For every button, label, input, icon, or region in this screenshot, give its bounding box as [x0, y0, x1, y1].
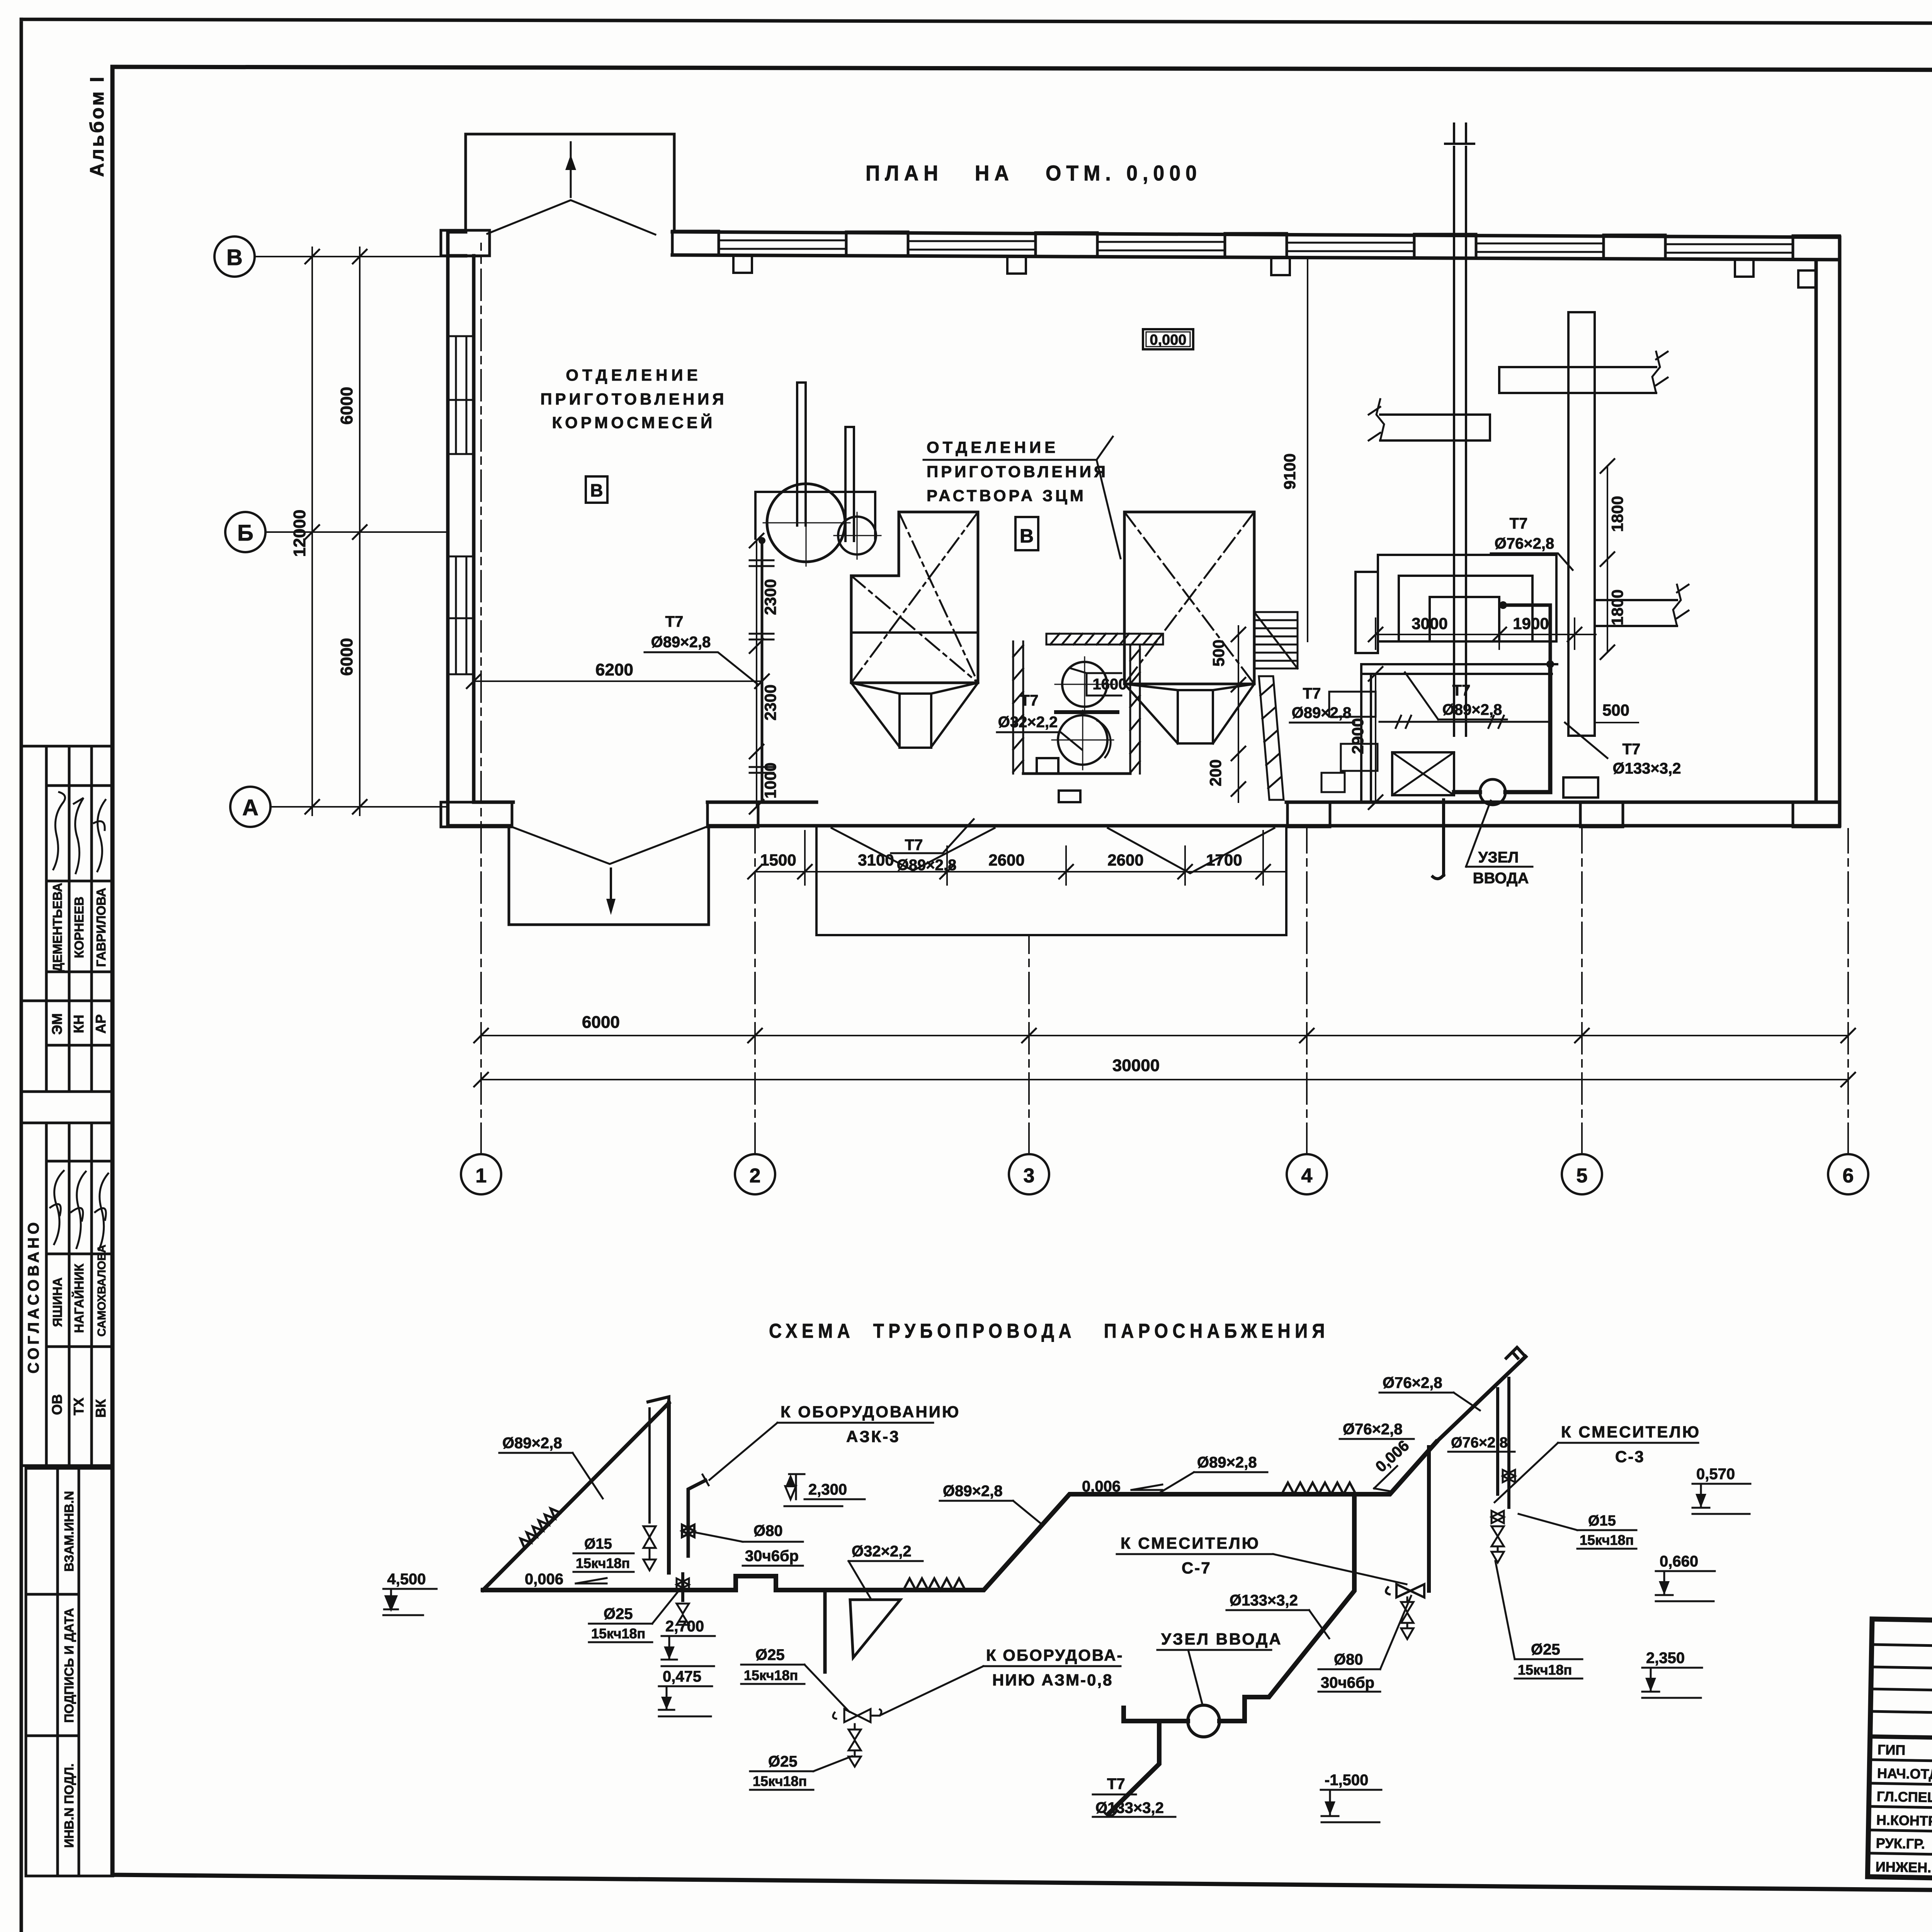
pump circle — [1188, 1705, 1219, 1737]
partition wall right zone horizontal — [1361, 664, 1557, 674]
svg-text:САМОХВАЛОВА: САМОХВАЛОВА — [95, 1245, 108, 1337]
svg-text:Т7: Т7 — [1510, 515, 1528, 532]
label АЗК-3 — [781, 1403, 960, 1446]
stamp grid lines — [1871, 1645, 1932, 1716]
svg-text:Ø15: Ø15 — [584, 1536, 612, 1552]
svg-text:2300: 2300 — [761, 579, 779, 615]
svg-text:УЗЕЛ ВВОДА: УЗЕЛ ВВОДА — [1161, 1630, 1282, 1648]
T7 d89 pipe run — [1379, 721, 1548, 723]
svg-text:ЯШИНА: ЯШИНА — [50, 1277, 65, 1327]
arm 3 break — [1673, 585, 1689, 626]
riser tick marks — [750, 560, 774, 773]
left dim ticks — [305, 250, 367, 814]
svg-text:12000: 12000 — [290, 510, 309, 557]
X-box near entry unit — [1392, 752, 1454, 795]
valve d80 right with tilde — [1386, 1584, 1424, 1597]
signature Дементьева — [53, 792, 65, 869]
roller swirl — [1097, 721, 1111, 757]
svg-text:ЭМ: ЭМ — [49, 1013, 65, 1035]
label d15 left — [576, 1536, 630, 1571]
svg-text:30000: 30000 — [1112, 1056, 1160, 1075]
pipe segment with node upper — [1503, 605, 1550, 664]
label T7 d89 right room — [1442, 682, 1502, 718]
svg-text:2,300: 2,300 — [808, 1481, 847, 1498]
svg-text:0,000: 0,000 — [1150, 332, 1186, 348]
dim 9100 — [1307, 260, 1308, 641]
label узел ввода with leader — [1473, 849, 1529, 887]
svg-text:Б: Б — [237, 520, 253, 546]
svg-text:Н.КОНТР.: Н.КОНТР. — [1876, 1812, 1932, 1829]
svg-text:Ø25: Ø25 — [604, 1605, 633, 1622]
svg-text:АР: АР — [93, 1014, 109, 1034]
svg-text:РАСТВОРА ЗЦМ: РАСТВОРА ЗЦМ — [927, 486, 1086, 505]
LEFTCOL — [21, 746, 113, 1876]
svg-text:3: 3 — [1024, 1165, 1035, 1187]
dim chain 1500 3100 2600 2600 1700 — [755, 871, 1286, 872]
left riser pipe T7 — [761, 541, 764, 802]
signature Корнеев — [74, 798, 83, 873]
svg-text:ПЛАН НА ОТМ. 0,000: ПЛАН НА ОТМ. 0,000 — [866, 161, 1202, 185]
svg-text:15кч18п: 15кч18п — [753, 1773, 807, 1789]
svg-text:-1,500: -1,500 — [1325, 1772, 1368, 1789]
svg-text:Ø76×2,8: Ø76×2,8 — [1383, 1374, 1442, 1391]
bottom wall piers — [441, 802, 1840, 827]
svg-text:К ОБОРУДОВА-: К ОБОРУДОВА- — [986, 1646, 1123, 1664]
elevation box 0,000 — [1143, 329, 1193, 349]
svg-text:2300: 2300 — [761, 684, 779, 720]
branch АЗК-3 upper pipe — [688, 1480, 706, 1556]
svg-text:6200: 6200 — [595, 660, 633, 679]
svg-text:15кч18п: 15кч18п — [744, 1667, 798, 1683]
branch lower drop — [681, 1574, 684, 1600]
svg-text:2: 2 — [750, 1165, 761, 1187]
svg-text:15кч18п: 15кч18п — [1518, 1662, 1572, 1678]
svg-text:1900: 1900 — [1513, 614, 1549, 633]
svg-text:2600: 2600 — [1107, 851, 1143, 869]
drop pipe d80 right — [1427, 1447, 1431, 1591]
approvals table 1 grid — [21, 746, 113, 1092]
hopper 2 box — [1124, 512, 1254, 684]
top wall piers — [441, 230, 1840, 260]
signature Нагайник — [71, 1172, 86, 1248]
svg-text:0,475: 0,475 — [663, 1668, 701, 1685]
svg-text:Т7: Т7 — [1107, 1776, 1125, 1793]
svg-text:15кч18п: 15кч18п — [591, 1626, 645, 1641]
bottom porch arrow — [610, 869, 612, 900]
label d15 right — [1580, 1513, 1634, 1548]
svg-text:4: 4 — [1301, 1165, 1313, 1187]
steam pipe from pump — [1454, 664, 1550, 792]
svg-text:30ч6бр: 30ч6бр — [745, 1548, 799, 1565]
left dim line 6000s — [359, 247, 361, 815]
svg-text:Ø133×3,2: Ø133×3,2 — [1613, 760, 1681, 777]
ЗЦМ room hatched wall left — [1013, 641, 1023, 774]
svg-text:КОРНЕЕВ: КОРНЕЕВ — [72, 896, 86, 958]
porch exit arrow — [570, 142, 572, 197]
svg-text:КОРМОСМЕСЕЙ: КОРМОСМЕСЕЙ — [552, 413, 716, 432]
svg-text:0,570: 0,570 — [1696, 1466, 1735, 1483]
svg-text:ВЗАМ.ИНВ.N: ВЗАМ.ИНВ.N — [62, 1491, 76, 1572]
svg-text:А: А — [242, 795, 259, 820]
svg-text:Т7: Т7 — [905, 837, 923, 854]
conveyor cross arm 2 — [1380, 415, 1490, 440]
apex flag — [648, 1397, 669, 1410]
svg-text:РУК.ГР.: РУК.ГР. — [1876, 1835, 1925, 1852]
svg-text:ОТДЕЛЕНИЕ: ОТДЕЛЕНИЕ — [927, 438, 1059, 456]
dim line 30000 — [481, 1079, 1848, 1080]
svg-text:НИЮ АЗМ-0,8: НИЮ АЗМ-0,8 — [992, 1671, 1113, 1689]
svg-text:2600: 2600 — [988, 851, 1024, 869]
svg-text:Ø25: Ø25 — [768, 1753, 798, 1770]
valve d80 on branch — [682, 1525, 694, 1537]
TITLEBLOCK — [1867, 1483, 1932, 1932]
hopper 2 X — [1124, 512, 1254, 684]
svg-text:Ø32×2,2: Ø32×2,2 — [852, 1543, 912, 1560]
signature Гаврилова — [94, 800, 105, 871]
porch roof ridge — [487, 200, 655, 235]
dim 3000 1900 — [1376, 618, 1596, 649]
ЗЦМ label leader — [923, 437, 1121, 558]
svg-text:2900: 2900 — [1349, 718, 1367, 754]
svg-text:Ø15: Ø15 — [1588, 1513, 1616, 1529]
conveyor cross arm 1 — [1499, 367, 1656, 393]
bottom porch roof — [514, 827, 706, 864]
pipe drop below pump — [1433, 800, 1444, 879]
axis В line — [255, 256, 481, 257]
roller circle 2 — [1058, 715, 1107, 765]
tank crosshairs — [763, 479, 881, 566]
left wall window 1 — [450, 336, 472, 454]
branch d32 drop — [823, 1590, 827, 1672]
top wall glazing — [719, 240, 1793, 253]
svg-text:КН: КН — [71, 1015, 87, 1033]
svg-text:ВВОДА: ВВОДА — [1473, 870, 1529, 887]
hopper 1 band line — [851, 631, 978, 634]
svg-text:ПРИГОТОВЛЕНИЯ: ПРИГОТОВЛЕНИЯ — [927, 463, 1108, 481]
svg-text:200: 200 — [1206, 759, 1225, 786]
label d80 30ч6бр — [745, 1522, 799, 1565]
svg-text:1600: 1600 — [1093, 676, 1127, 693]
left wall lines — [448, 232, 474, 826]
dim 1800 1800 vertical — [1607, 466, 1608, 652]
label T7 d76 — [1495, 515, 1554, 552]
svg-text:0,006: 0,006 — [1082, 1478, 1121, 1495]
svg-text:ПРИГОТОВЛЕНИЯ: ПРИГОТОВЛЕНИЯ — [540, 390, 727, 408]
svg-text:6: 6 — [1843, 1165, 1854, 1187]
label d25 right — [1518, 1641, 1572, 1678]
svg-text:К СМЕСИТЕЛЮ: К СМЕСИТЕЛЮ — [1561, 1423, 1701, 1441]
svg-text:ПОДПИСЬ И ДАТА: ПОДПИСЬ И ДАТА — [62, 1608, 76, 1723]
left wall window 2 — [450, 556, 472, 674]
svg-text:Ø76×2,8: Ø76×2,8 — [1343, 1421, 1403, 1438]
svg-text:К ОБОРУДОВАНИЮ: К ОБОРУДОВАНИЮ — [781, 1403, 960, 1421]
label T7 d133 — [1613, 741, 1681, 777]
parallel risers d76 — [1498, 1378, 1509, 1507]
dim chain 2300 2300 1000 — [756, 541, 757, 807]
svg-text:В: В — [226, 245, 243, 270]
svg-text:СХЕМА ТРУБОПРОВОДА ПАРОСНАБ: СХЕМА ТРУБОПРОВОДА ПАРОСНАБЖЕНИЯ — [769, 1320, 1329, 1342]
diagonal d76 rise — [1436, 1357, 1526, 1442]
label С-3 — [1561, 1423, 1701, 1466]
svg-text:1500: 1500 — [760, 851, 796, 869]
svg-text:ТХ: ТХ — [71, 1398, 87, 1415]
main steam line run 1 — [483, 1442, 1436, 1590]
column stubs below top wall — [733, 256, 1753, 277]
pipe left of pump — [1124, 1708, 1188, 1721]
block near pier — [1563, 777, 1598, 798]
zone mark В 1 — [586, 476, 607, 503]
return drop T7 — [1109, 1724, 1159, 1813]
axis А line — [270, 806, 448, 808]
valve АЗМ — [833, 1709, 881, 1722]
svg-text:УЗЕЛ: УЗЕЛ — [1478, 849, 1519, 866]
svg-text:СОГЛАСОВАНО: СОГЛАСОВАНО — [25, 1219, 42, 1373]
axis Б line — [265, 531, 448, 533]
approvals table 2 grid — [21, 1123, 113, 1466]
d76 top flag — [1506, 1347, 1526, 1358]
svg-text:ГАВРИЛОВА: ГАВРИЛОВА — [94, 888, 108, 967]
label d25 no3 — [753, 1753, 807, 1789]
steam trace zigzag 2 — [1282, 1483, 1356, 1494]
svg-text:Ø89×2,8: Ø89×2,8 — [1292, 704, 1352, 721]
arm 1 break — [1652, 352, 1668, 393]
svg-text:Т7: Т7 — [1303, 685, 1321, 702]
SCHEMA — [383, 1320, 1750, 1822]
d32 flag triangle — [850, 1600, 900, 1658]
svg-text:Ø25: Ø25 — [755, 1646, 785, 1663]
bottom axis circles 1-6 — [461, 1154, 1868, 1194]
svg-text:Т7: Т7 — [1020, 692, 1039, 709]
axis А circle — [230, 787, 270, 827]
svg-text:ИНВ.N ПОДЛ.: ИНВ.N ПОДЛ. — [62, 1764, 76, 1848]
furniture rects — [1321, 692, 1378, 792]
dim 6200 — [474, 680, 762, 682]
riser triangle hypotenuse — [483, 1403, 669, 1590]
svg-text:ГЛ.СПЕЦ.: ГЛ.СПЕЦ. — [1877, 1788, 1932, 1805]
svg-text:30ч6бр: 30ч6бр — [1321, 1674, 1374, 1691]
inventory strip table 3 — [26, 1468, 113, 1876]
dim 2900 — [1375, 674, 1376, 802]
chimney 2 — [845, 427, 854, 541]
label d25 no2 — [744, 1646, 798, 1683]
svg-text:АЗК-3: АЗК-3 — [846, 1427, 900, 1446]
signature Яшина — [50, 1171, 64, 1244]
tank circle small — [838, 517, 876, 554]
svg-text:Ø76×2,8: Ø76×2,8 — [1451, 1435, 1508, 1451]
svg-text:Ø80: Ø80 — [1334, 1651, 1363, 1668]
hopper 1 funnel — [851, 683, 978, 747]
svg-text:Ø80: Ø80 — [753, 1522, 783, 1539]
hopper 1 X — [851, 512, 978, 683]
conveyor vertical strip — [1568, 312, 1595, 736]
roller feed pipe — [1056, 710, 1117, 714]
axis В circle — [214, 236, 255, 277]
svg-text:3100: 3100 — [858, 851, 894, 869]
PLAN — [214, 124, 1868, 1194]
floor sill blocks — [1037, 758, 1080, 802]
svg-text:Ø89×2,8: Ø89×2,8 — [1442, 701, 1502, 718]
svg-text:С-7: С-7 — [1182, 1559, 1211, 1577]
svg-text:Т7: Т7 — [1622, 741, 1641, 758]
entry unit pump circle — [1480, 779, 1505, 805]
axis Б circle — [225, 512, 265, 552]
svg-text:ОВ: ОВ — [49, 1394, 65, 1415]
right wall — [1816, 237, 1840, 826]
tank base plate — [755, 492, 875, 539]
loading dock outline — [816, 826, 1286, 935]
hopper 1 outlet — [900, 694, 931, 748]
svg-text:2,700: 2,700 — [665, 1618, 704, 1635]
conveyor arm 3 — [1596, 600, 1677, 626]
main stamp outline — [1867, 1619, 1932, 1891]
dim ticks bottom — [474, 1029, 1855, 1087]
label T7 d89 bottom — [897, 837, 957, 874]
svg-text:4,500: 4,500 — [387, 1571, 426, 1588]
svg-text:В: В — [1020, 525, 1034, 547]
svg-text:500: 500 — [1602, 701, 1629, 719]
valve on riser — [1503, 1470, 1515, 1482]
tank circle big — [767, 484, 845, 562]
svg-text:Ø89×2,8: Ø89×2,8 — [897, 857, 957, 874]
svg-text:В: В — [590, 480, 603, 500]
label Т7 schema — [1095, 1776, 1164, 1816]
bottom porch — [509, 827, 709, 925]
ЗЦМ room hatched wall right — [1130, 645, 1140, 774]
svg-text:15кч18п: 15кч18п — [1580, 1532, 1634, 1548]
hypotenuse trace zigzag — [520, 1509, 561, 1549]
axis stems — [481, 243, 1848, 1154]
dim line 6000 bay — [481, 1035, 1848, 1036]
roller crosshairs — [1052, 657, 1114, 770]
svg-text:Альбом I: Альбом I — [86, 75, 108, 177]
top wall inner line — [448, 255, 1840, 260]
drain below АЗМ valve — [849, 1724, 861, 1767]
svg-text:Ø133×3,2: Ø133×3,2 — [1230, 1592, 1298, 1609]
svg-text:Ø133×3,2: Ø133×3,2 — [1095, 1799, 1164, 1816]
svg-text:3000: 3000 — [1412, 614, 1447, 633]
left dim line 12000 — [311, 247, 313, 815]
svg-text:1700: 1700 — [1206, 851, 1242, 869]
svg-text:НАГАЙНИК: НАГАЙНИК — [71, 1263, 86, 1333]
zone mark В 2 — [1015, 517, 1038, 550]
arm 2 break — [1369, 399, 1384, 440]
signature Самохвалова — [95, 1173, 108, 1250]
chimney 1 — [797, 383, 806, 526]
svg-text:2,350: 2,350 — [1646, 1650, 1685, 1667]
right wall corner stub — [1798, 270, 1816, 287]
mixer room floor line — [1023, 772, 1130, 775]
svg-text:Т7: Т7 — [665, 613, 684, 630]
inner drop thin — [648, 1408, 651, 1522]
svg-text:0,006: 0,006 — [525, 1571, 563, 1588]
hopper 1 box — [851, 512, 978, 683]
hopper 2 funnel — [1124, 684, 1254, 743]
label d25 no1 — [591, 1605, 645, 1641]
svg-text:9100: 9100 — [1281, 453, 1299, 489]
dock ramp right — [1108, 828, 1274, 873]
hopper 2 outlet — [1178, 690, 1213, 743]
svg-text:С-3: С-3 — [1615, 1447, 1645, 1466]
svg-text:Ø89×2,8: Ø89×2,8 — [502, 1435, 562, 1452]
entrance porch top — [466, 134, 674, 232]
svg-text:0,660: 0,660 — [1660, 1553, 1698, 1570]
svg-text:К СМЕСИТЕЛЮ: К СМЕСИТЕЛЮ — [1121, 1534, 1260, 1552]
svg-text:ДЕМЕНТЬЕВА: ДЕМЕНТЬЕВА — [50, 883, 65, 972]
svg-text:Ø32×2,2: Ø32×2,2 — [998, 714, 1058, 731]
label T7 d32 — [998, 692, 1058, 731]
svg-text:6000: 6000 — [337, 638, 356, 676]
long vertical duct — [1445, 124, 1474, 736]
svg-text:1: 1 — [476, 1165, 487, 1187]
room label ЗЦМ — [927, 438, 1108, 505]
svg-text:5: 5 — [1577, 1165, 1588, 1187]
svg-text:Ø89×2,8: Ø89×2,8 — [943, 1483, 1003, 1500]
svg-text:Ø25: Ø25 — [1531, 1641, 1560, 1658]
svg-text:1800: 1800 — [1608, 589, 1626, 625]
pipe node — [1546, 660, 1554, 668]
hatched wall below stairs — [1259, 676, 1284, 800]
label T7 d89 left — [651, 613, 711, 651]
svg-text:6000: 6000 — [337, 387, 356, 425]
svg-text:6000: 6000 — [582, 1013, 620, 1032]
svg-text:Ø89×2,8: Ø89×2,8 — [1197, 1454, 1257, 1471]
svg-text:ИНЖЕН.: ИНЖЕН. — [1875, 1859, 1931, 1876]
svg-text:Ø76×2,8: Ø76×2,8 — [1495, 535, 1554, 552]
label С-7 — [1121, 1534, 1260, 1577]
stairs — [1254, 612, 1298, 668]
svg-text:1800: 1800 — [1608, 496, 1626, 532]
svg-text:15кч18п: 15кч18п — [576, 1555, 630, 1571]
svg-text:ВК: ВК — [93, 1399, 109, 1418]
svg-text:Ø89×2,8: Ø89×2,8 — [651, 634, 711, 651]
svg-text:Т7: Т7 — [1452, 682, 1471, 699]
top wall outer line — [448, 232, 1840, 237]
roller circle 1 — [1062, 662, 1107, 707]
dock ramp left — [832, 828, 995, 871]
partition wall right zone vertical — [1361, 664, 1371, 802]
equipment box cluster — [1355, 555, 1556, 653]
ЗЦМ room hatched wall top — [1046, 634, 1163, 645]
drain arrows risers — [1492, 1511, 1504, 1563]
drain below d80 valve — [1401, 1597, 1413, 1639]
svg-text:ОТДЕЛЕНИЕ: ОТДЕЛЕНИЕ — [566, 366, 701, 384]
vertical drop to узел ввода — [1219, 1494, 1354, 1721]
room label кормосмеси — [540, 366, 727, 432]
label АЗМ-0,8 — [986, 1646, 1123, 1689]
steam trace zigzag 1 — [903, 1578, 965, 1590]
svg-text:500: 500 — [1209, 639, 1228, 667]
label d80 no2 — [1321, 1651, 1374, 1691]
valve d25 below — [677, 1578, 689, 1625]
svg-text:ГИП: ГИП — [1878, 1742, 1906, 1758]
svg-text:НАЧ.ОТД.: НАЧ.ОТД. — [1877, 1765, 1932, 1782]
bottom wall lines — [448, 802, 1840, 826]
apex drop pipe — [667, 1403, 671, 1573]
label T7 d89 mid — [1292, 685, 1352, 721]
drain valve d15 left — [643, 1526, 656, 1570]
